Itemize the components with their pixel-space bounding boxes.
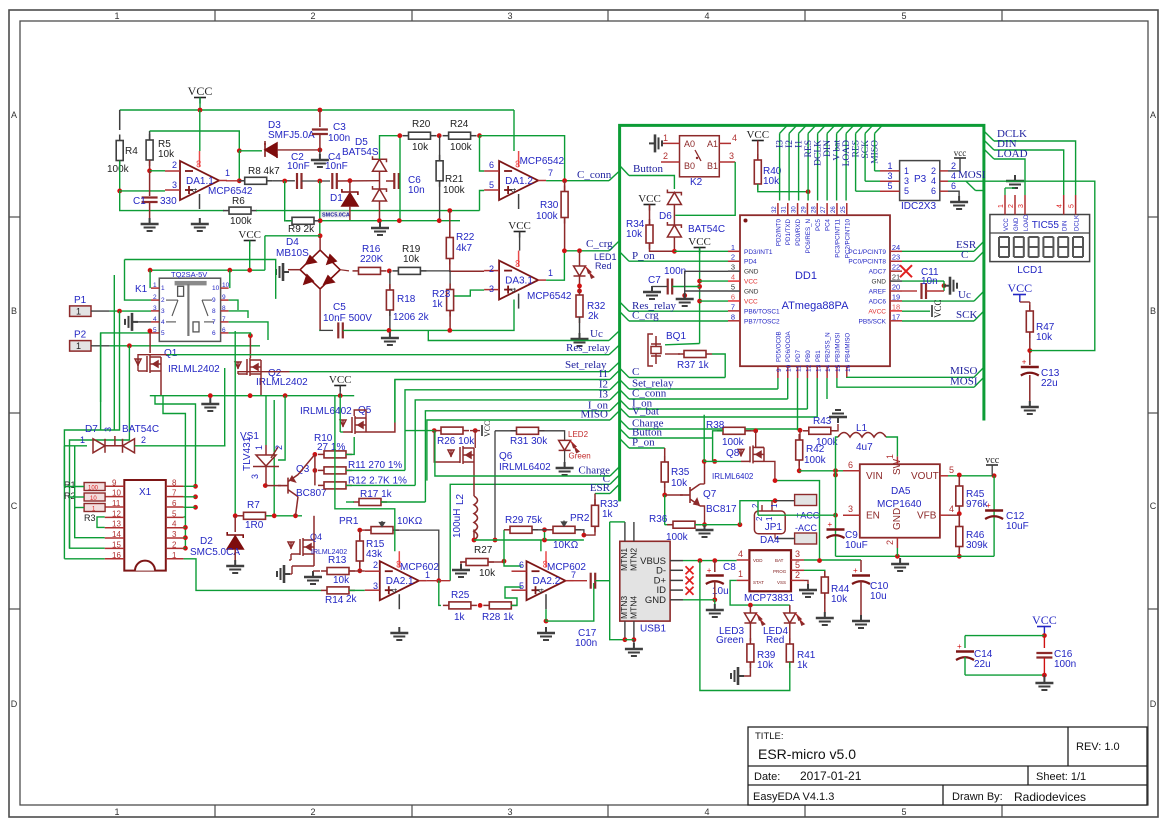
wire R11 right bbox=[346, 469, 405, 471]
wire bbox=[896, 548, 898, 556]
svg-text:DA3.1: DA3.1 bbox=[505, 276, 533, 287]
svg-text:DA5: DA5 bbox=[891, 486, 911, 497]
svg-text:I2: I2 bbox=[785, 140, 795, 148]
svg-text:Radiodevices: Radiodevices bbox=[1014, 790, 1086, 804]
wire bbox=[149, 160, 151, 171]
svg-text:4: 4 bbox=[536, 588, 546, 593]
wire L1 to SW bbox=[886, 437, 897, 456]
junction bbox=[697, 279, 702, 284]
wire -ACC stub bbox=[775, 538, 795, 540]
svg-text:C: C bbox=[11, 501, 18, 511]
VCC sideways R26 bbox=[481, 425, 483, 436]
svg-text:PB2/SS_N: PB2/SS_N bbox=[825, 332, 832, 362]
ground K1 pin4 bbox=[125, 313, 138, 331]
pin K2-1 bbox=[661, 142, 680, 144]
diode D7 BAT54C left bbox=[93, 439, 105, 453]
wire C17 right bbox=[595, 580, 610, 582]
wire VOUT line bbox=[948, 475, 994, 477]
svg-text:3: 3 bbox=[848, 504, 853, 514]
junction bbox=[183, 546, 188, 551]
wire Q3 collector bbox=[298, 454, 315, 474]
diode D1 SMC5.0CA bbox=[342, 189, 358, 206]
svg-text:1: 1 bbox=[225, 168, 230, 178]
pin DD1-8 PB7/TOSC2 bbox=[728, 320, 740, 322]
wire Q4 source bbox=[313, 554, 315, 566]
svg-text:BC817: BC817 bbox=[706, 504, 737, 515]
resistor R25 bbox=[443, 602, 477, 609]
pin DD1-5 GND bbox=[728, 290, 740, 292]
svg-text:P_on: P_on bbox=[632, 437, 655, 449]
svg-text:IDC2X3: IDC2X3 bbox=[901, 201, 936, 212]
IC DA4 MCP73831 bbox=[749, 550, 791, 591]
svg-text:EasyEDA V4.1.3: EasyEDA V4.1.3 bbox=[753, 791, 834, 803]
svg-text:Q1: Q1 bbox=[164, 348, 178, 359]
svg-text:TIC55: TIC55 bbox=[1032, 220, 1060, 231]
svg-text:PD6/OC0A: PD6/OC0A bbox=[785, 331, 792, 362]
wire Q5 to I1 bbox=[366, 423, 395, 433]
pin DD1-9 bbox=[777, 366, 779, 378]
wire D5 top to R20 bbox=[380, 136, 400, 159]
svg-text:VCC: VCC bbox=[746, 129, 769, 141]
wire net I3 to DD1 top pin bbox=[779, 133, 781, 200]
svg-text:1R0: 1R0 bbox=[245, 520, 264, 531]
svg-text:100k: 100k bbox=[230, 216, 253, 227]
resistor R19 bbox=[392, 267, 426, 274]
wire R46 bottom bbox=[958, 547, 960, 557]
resistor R46 bbox=[956, 521, 963, 553]
ground under R32 bbox=[571, 333, 589, 346]
svg-text:R6: R6 bbox=[232, 196, 245, 207]
wire R34 bottom bbox=[650, 243, 675, 251]
svg-text:6: 6 bbox=[731, 292, 735, 301]
svg-text:6: 6 bbox=[222, 327, 226, 334]
wire vertical C6 right bbox=[399, 136, 401, 221]
wire X1 pin13 loop bbox=[97, 517, 105, 528]
resistor R45 bbox=[956, 480, 963, 512]
wire C1 bottom lead bbox=[149, 202, 151, 222]
junction bbox=[437, 133, 442, 138]
svg-text:Q7: Q7 bbox=[703, 489, 717, 500]
junction bbox=[237, 148, 242, 153]
svg-text:11: 11 bbox=[112, 499, 121, 508]
svg-text:VCC: VCC bbox=[1007, 281, 1032, 295]
wire R2 left bbox=[70, 496, 85, 498]
svg-text:Uc: Uc bbox=[958, 289, 971, 301]
svg-text:3: 3 bbox=[373, 581, 378, 591]
wire bbox=[184, 516, 186, 518]
svg-text:RES: RES bbox=[804, 140, 814, 157]
svg-text:Date:: Date: bbox=[754, 771, 780, 783]
junction bbox=[806, 189, 811, 194]
svg-text:4: 4 bbox=[172, 520, 177, 529]
wire D4 left lead bbox=[288, 269, 300, 271]
capacitor C6 bbox=[394, 173, 399, 189]
svg-text:LCD1: LCD1 bbox=[1017, 265, 1043, 276]
ground R27 bbox=[452, 564, 470, 577]
svg-text:7: 7 bbox=[731, 302, 735, 311]
svg-text:4: 4 bbox=[1057, 204, 1064, 208]
svg-text:LOAD: LOAD bbox=[1024, 214, 1030, 231]
wire R18 top lead bbox=[389, 271, 391, 290]
ground R44 bbox=[816, 612, 834, 625]
svg-text:5: 5 bbox=[519, 581, 524, 591]
resistor R38 bbox=[717, 427, 751, 434]
svg-text:4: 4 bbox=[732, 133, 737, 143]
svg-text:5: 5 bbox=[901, 11, 906, 21]
svg-text:8: 8 bbox=[212, 308, 216, 315]
junction bbox=[672, 249, 677, 254]
svg-text:VCC: VCC bbox=[744, 298, 758, 305]
resistor R29 bbox=[504, 526, 538, 533]
wire K1 upper loop bbox=[125, 260, 276, 299]
svg-text:ESR: ESR bbox=[590, 482, 611, 494]
junction bbox=[283, 393, 288, 398]
svg-text:VOUT: VOUT bbox=[911, 471, 939, 482]
wire bbox=[302, 180, 331, 182]
svg-text:10: 10 bbox=[212, 285, 220, 292]
svg-text:DA2.1: DA2.1 bbox=[386, 576, 414, 587]
pin DD1-2 PD4 bbox=[728, 260, 740, 262]
wire K1 pin5 left bbox=[101, 333, 151, 402]
wire C_crg net bbox=[564, 250, 609, 252]
wire bbox=[1043, 675, 1045, 679]
wire C_crg to DD1 pin8 bbox=[629, 320, 728, 322]
wire R43 right bbox=[831, 424, 838, 431]
wire R38 right bbox=[745, 430, 756, 432]
wire Res_relay to DD1 pin7 bbox=[629, 310, 728, 312]
pin MTN3 bbox=[624, 621, 626, 640]
wire Q3 emitter bbox=[296, 497, 299, 516]
ground Q7 bbox=[696, 524, 714, 537]
svg-text:VCC: VCC bbox=[1004, 218, 1010, 231]
svg-text:1: 1 bbox=[765, 516, 774, 521]
svg-text:R25: R25 bbox=[451, 590, 470, 601]
junction bbox=[817, 558, 822, 563]
pin LCD1-4 DIN bbox=[1063, 195, 1065, 215]
svg-text:MISO: MISO bbox=[580, 409, 608, 421]
wire bbox=[633, 640, 635, 645]
svg-text:100k: 100k bbox=[107, 164, 130, 175]
wire R40 top lead bbox=[757, 141, 759, 161]
wire bbox=[664, 495, 666, 525]
svg-text:3: 3 bbox=[904, 176, 909, 186]
svg-text:P2: P2 bbox=[74, 330, 87, 341]
wire bbox=[395, 380, 610, 423]
svg-text:3: 3 bbox=[507, 807, 512, 817]
junction bbox=[712, 558, 717, 563]
junction bbox=[942, 283, 947, 288]
wire bbox=[700, 483, 705, 485]
wire net I_on from bus bbox=[620, 400, 629, 410]
junction bbox=[698, 558, 703, 563]
junction bbox=[473, 428, 478, 433]
junction bbox=[447, 208, 452, 213]
wire C8 top bbox=[714, 561, 716, 572]
wire net RES to DD1 top pin bbox=[807, 133, 809, 200]
wire PR1 right to out bbox=[393, 530, 439, 581]
polarized capacitor C8 bbox=[706, 566, 724, 584]
svg-text:10k: 10k bbox=[158, 149, 175, 160]
svg-text:PC6/RES_N: PC6/RES_N bbox=[805, 219, 812, 253]
capacitor C5 bbox=[338, 322, 343, 338]
svg-text:R30: R30 bbox=[540, 200, 559, 211]
junction bbox=[697, 284, 702, 289]
junction bbox=[577, 289, 582, 294]
svg-text:PB3/MOSI: PB3/MOSI bbox=[834, 332, 841, 362]
svg-text:10KΩ: 10KΩ bbox=[553, 540, 579, 551]
svg-text:15: 15 bbox=[112, 540, 121, 549]
resistor R43 bbox=[803, 427, 837, 434]
svg-text:8: 8 bbox=[731, 312, 735, 321]
wire net V bat to DD1 top pin bbox=[836, 133, 838, 200]
svg-text:10: 10 bbox=[786, 364, 793, 372]
wire LED3 top bbox=[749, 605, 751, 613]
svg-text:P_on: P_on bbox=[632, 250, 655, 262]
junction bbox=[542, 527, 547, 532]
wire pin12 down bbox=[806, 378, 808, 409]
svg-text:TLV431: TLV431 bbox=[242, 436, 253, 471]
junction bbox=[198, 108, 203, 113]
wire K1 pin8 bbox=[229, 311, 248, 318]
junction bbox=[773, 478, 778, 483]
svg-text:5: 5 bbox=[489, 180, 494, 190]
svg-text:9: 9 bbox=[222, 294, 226, 301]
svg-text:10k: 10k bbox=[763, 176, 780, 187]
wire pin3 DA1.1 bbox=[120, 190, 165, 192]
svg-text:1: 1 bbox=[76, 341, 81, 351]
svg-text:C: C bbox=[632, 366, 639, 378]
ground under R18 bbox=[381, 332, 399, 345]
svg-text:10k: 10k bbox=[626, 229, 643, 240]
pin X1-8 bbox=[166, 485, 184, 487]
LED LED2 Green bbox=[559, 440, 579, 452]
wire bbox=[519, 232, 521, 251]
wire P_on to DD1 pin2 bbox=[629, 260, 728, 262]
svg-text:2: 2 bbox=[153, 294, 157, 301]
crystal BQ1 bbox=[648, 334, 661, 366]
LED LED1 Red bbox=[574, 266, 594, 278]
junction bbox=[183, 525, 188, 530]
svg-text:C_crg: C_crg bbox=[586, 238, 613, 250]
svg-text:9: 9 bbox=[212, 297, 216, 304]
wire R31 left bbox=[495, 430, 517, 432]
wire to D3 bbox=[239, 150, 262, 152]
svg-text:309k: 309k bbox=[966, 540, 989, 551]
inductor L1 bbox=[838, 433, 886, 438]
wire DA2.1 out bbox=[427, 580, 450, 582]
wire VS1 pin1 bbox=[265, 396, 267, 445]
polarized capacitor C12 bbox=[985, 501, 1003, 519]
svg-text:VDD: VDD bbox=[753, 558, 763, 563]
svg-text:MCP602: MCP602 bbox=[400, 562, 439, 573]
wire D6 bottom bbox=[673, 237, 675, 251]
svg-text:1: 1 bbox=[887, 161, 892, 171]
wire net DCLK to DD1 top pin bbox=[817, 133, 819, 200]
svg-text:R28 1k: R28 1k bbox=[482, 612, 515, 623]
resistor R28 bbox=[483, 602, 517, 609]
svg-text:D: D bbox=[1150, 699, 1157, 709]
wire bbox=[461, 561, 466, 563]
svg-text:C_crg: C_crg bbox=[632, 310, 659, 322]
wire R33 top bbox=[594, 494, 596, 506]
svg-text:A1: A1 bbox=[707, 139, 718, 149]
wire bbox=[1043, 658, 1045, 675]
wire C7 left bbox=[652, 286, 667, 288]
wire GND pin21 bbox=[902, 280, 944, 282]
svg-text:10k: 10k bbox=[412, 142, 429, 153]
resistor R7 bbox=[238, 512, 272, 519]
pin MTN4 bbox=[633, 621, 635, 640]
ground C7 bbox=[643, 286, 661, 299]
wire bbox=[184, 496, 196, 498]
wire vertical to K1 coil line bbox=[264, 236, 266, 270]
resistor R10 bbox=[318, 451, 352, 458]
junction bbox=[1042, 633, 1047, 638]
junction bbox=[577, 284, 582, 289]
pin DA5-4 VFB bbox=[940, 514, 948, 516]
svg-text:R14: R14 bbox=[325, 595, 344, 606]
wire R31 vertical bbox=[494, 431, 496, 540]
wire net Button from bus bbox=[620, 429, 629, 439]
junction bbox=[148, 329, 153, 334]
svg-text:C: C bbox=[1150, 501, 1157, 511]
svg-text:R35: R35 bbox=[671, 467, 690, 478]
svg-text:6: 6 bbox=[931, 186, 936, 196]
wire long vertical bbox=[113, 275, 115, 430]
junction bbox=[127, 343, 132, 348]
svg-text:SMC5.0CA: SMC5.0CA bbox=[322, 213, 350, 219]
resistor R37 bbox=[678, 351, 712, 358]
junction bbox=[293, 513, 298, 518]
wire bbox=[63, 446, 65, 487]
wire bbox=[318, 329, 321, 331]
wire Q2 gate bbox=[238, 372, 290, 374]
svg-text:K2: K2 bbox=[690, 177, 703, 188]
svg-text:R18: R18 bbox=[397, 294, 416, 305]
svg-text:MCP73831: MCP73831 bbox=[744, 593, 794, 604]
wire pin10 down bbox=[787, 378, 789, 399]
svg-text:BAT54S: BAT54S bbox=[342, 147, 379, 158]
diode D3 SMFJ5.0A bbox=[265, 143, 277, 157]
wire Charge line bbox=[435, 431, 610, 476]
wire I_on drop bbox=[424, 439, 426, 503]
svg-text:R31 30k: R31 30k bbox=[510, 436, 548, 447]
wire C net bbox=[902, 260, 974, 262]
pin DD1-11 bbox=[797, 366, 799, 378]
ground R43 bbox=[829, 410, 847, 423]
pin K1-1 bbox=[151, 287, 159, 289]
transistor Q8 IRLML6402 bbox=[738, 445, 764, 463]
ground D2 bbox=[226, 560, 244, 573]
wire R41 loop to VBUS bbox=[700, 561, 790, 691]
wire D4 top lead bbox=[319, 236, 321, 250]
wire R10 to Q5 bbox=[346, 437, 354, 454]
svg-text:P3: P3 bbox=[914, 174, 927, 185]
wire R12 right bbox=[346, 484, 415, 486]
svg-text:LED2: LED2 bbox=[568, 430, 589, 439]
svg-text:1: 1 bbox=[770, 503, 779, 508]
svg-text:3: 3 bbox=[1018, 204, 1025, 208]
transistor Q1 IRLML2402 bbox=[135, 355, 161, 373]
svg-text:PD1/TXD: PD1/TXD bbox=[785, 218, 792, 245]
wire VS1 pin2 bbox=[278, 396, 285, 460]
wire DA2.2 VCC bbox=[540, 540, 542, 552]
svg-text:10: 10 bbox=[112, 489, 121, 498]
junction bbox=[272, 513, 277, 518]
wire to pin6 bbox=[504, 561, 522, 566]
wire R47 top bbox=[1029, 302, 1031, 311]
wire R42 to VIN bbox=[799, 470, 843, 472]
svg-text:4: 4 bbox=[508, 288, 518, 293]
junction bbox=[263, 483, 268, 488]
svg-text:5: 5 bbox=[901, 807, 906, 817]
wire K1 pin5 to Q1 bbox=[149, 333, 151, 353]
wire DIN to LCD pin4 bbox=[994, 150, 1064, 195]
resistor R40 bbox=[754, 154, 761, 190]
svg-text:2: 2 bbox=[885, 540, 895, 545]
resistor R47 bbox=[1026, 305, 1033, 338]
wire Q8 to batt bbox=[764, 461, 775, 480]
svg-text:26: 26 bbox=[831, 206, 837, 213]
svg-text:1206 2k: 1206 2k bbox=[393, 312, 430, 323]
pin P3-1 bbox=[880, 170, 900, 172]
svg-text:D7: D7 bbox=[85, 424, 98, 435]
pin DD1-25 bbox=[846, 203, 848, 215]
junction bbox=[387, 328, 392, 333]
wire R17 right bbox=[381, 501, 425, 503]
svg-text:2: 2 bbox=[274, 445, 284, 450]
svg-text:PC4: PC4 bbox=[825, 218, 832, 231]
svg-text:R26 10k: R26 10k bbox=[437, 436, 475, 447]
svg-text:100k: 100k bbox=[443, 185, 466, 196]
ground DA4 VSS bbox=[799, 584, 817, 597]
wire net Charge from bus bbox=[620, 420, 629, 430]
wire VS1 pin3 bbox=[265, 480, 267, 486]
junction bbox=[357, 568, 362, 573]
wire net I3 staircase bbox=[610, 390, 620, 400]
svg-text:Green: Green bbox=[716, 635, 744, 646]
svg-text:29: 29 bbox=[801, 206, 807, 213]
svg-text:VCC: VCC bbox=[188, 84, 213, 98]
wire net C_conn from bus bbox=[620, 390, 629, 400]
svg-text:DA2.2: DA2.2 bbox=[533, 576, 561, 587]
wire to X1 pin8 bbox=[155, 396, 196, 487]
wire K1 pin9 bbox=[229, 300, 238, 310]
pin K1-7 bbox=[221, 321, 229, 323]
wire D4 bottom lead bbox=[319, 289, 321, 331]
pin K1-10 bbox=[221, 287, 229, 289]
svg-text:VCC: VCC bbox=[329, 374, 352, 386]
svg-text:22u: 22u bbox=[974, 659, 991, 670]
transistor Q4 IRLML2402 bbox=[288, 538, 314, 556]
junction bbox=[682, 293, 687, 298]
svg-text:23: 23 bbox=[892, 253, 900, 262]
ground source rail bbox=[201, 398, 219, 411]
wire BQ1 to R37 bbox=[665, 353, 680, 355]
ground at D4 left bbox=[276, 263, 289, 281]
capacitor C2 bbox=[297, 173, 302, 189]
junction bbox=[247, 268, 252, 273]
svg-text:VIN: VIN bbox=[866, 471, 883, 482]
svg-text:220K: 220K bbox=[360, 254, 384, 265]
svg-text:1: 1 bbox=[254, 445, 264, 450]
wire PR2 right bbox=[575, 530, 584, 535]
svg-text:4k7: 4k7 bbox=[456, 243, 473, 254]
resistor R16 bbox=[353, 267, 387, 274]
wire bbox=[339, 386, 341, 396]
resistor R31 bbox=[511, 427, 545, 434]
svg-text:2: 2 bbox=[161, 297, 165, 304]
